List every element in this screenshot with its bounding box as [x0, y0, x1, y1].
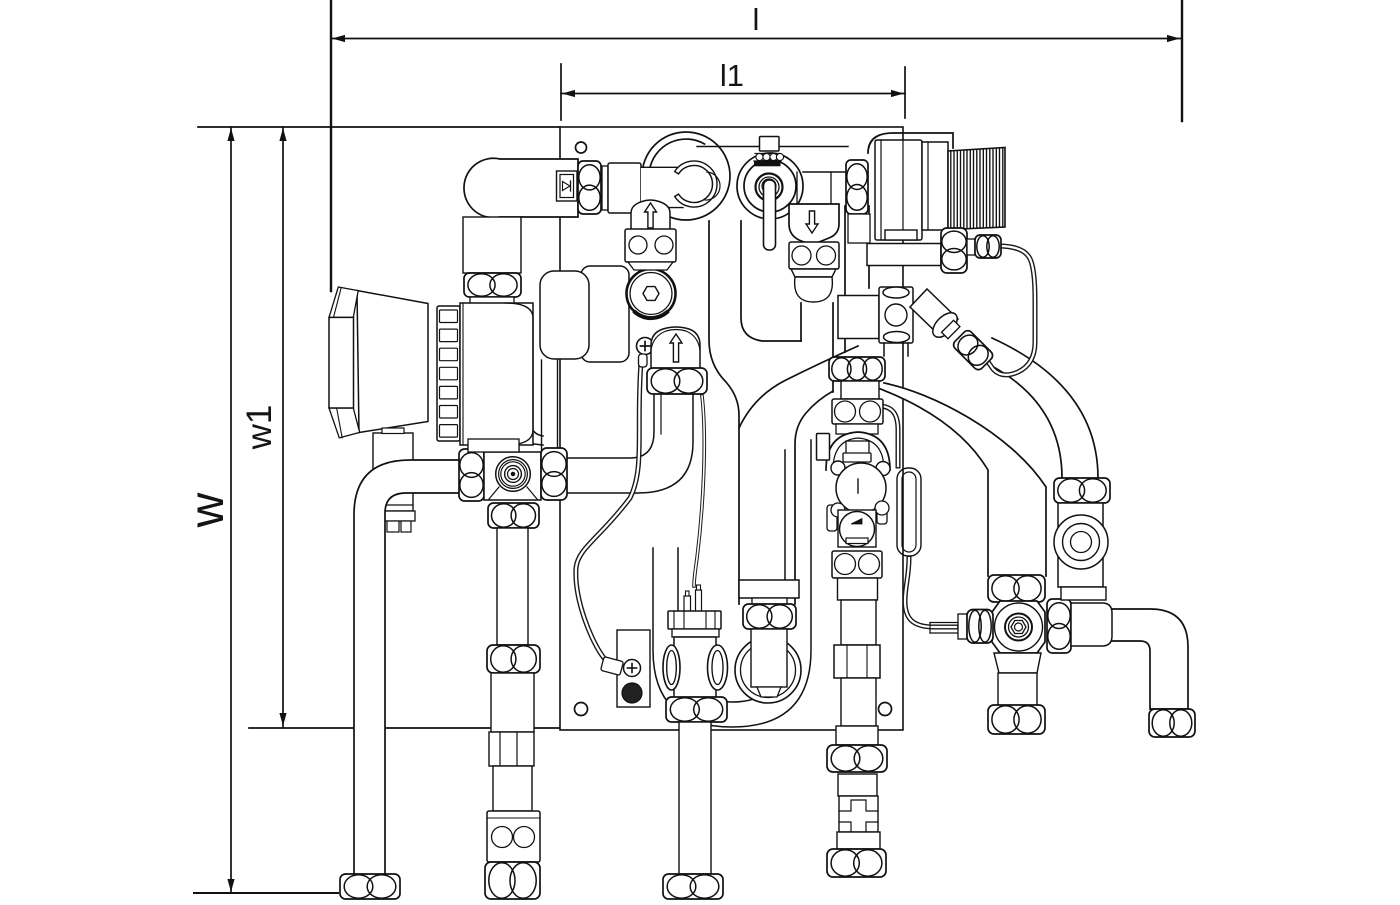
angled union nut — [951, 329, 994, 372]
pipe4 tube a — [841, 600, 876, 645]
mixing valve lugs — [827, 505, 837, 531]
pipe2 tube c — [493, 766, 532, 811]
mixing valve lower bolts — [831, 503, 845, 517]
check valve symbol box — [557, 171, 578, 201]
sight column front tube — [751, 629, 787, 687]
mixing valve bottom fitting — [832, 551, 882, 578]
dimension l1 tick left — [560, 64, 562, 120]
sensor lens left — [663, 645, 680, 690]
pipe4 collar — [836, 726, 878, 745]
mixing valve ball — [836, 463, 886, 513]
svg-text:w1: w1 — [240, 405, 279, 451]
dimension line l — [331, 38, 1181, 40]
valve5 right cylinder — [1071, 603, 1112, 646]
pipe elbow right — [1072, 609, 1188, 709]
flow fitting 1 taper — [628, 262, 673, 270]
terminal box — [617, 630, 650, 707]
mixing valve stem — [846, 441, 869, 454]
svg-text:w: w — [181, 492, 234, 528]
fitting taper — [791, 269, 836, 277]
pipe4 neck2 — [838, 774, 877, 796]
sensor flange — [668, 611, 721, 629]
sight column hex — [743, 604, 796, 629]
balancing valve rings — [737, 153, 803, 219]
capillary tube upper — [855, 406, 898, 466]
valve6 outlet collar — [1106, 600, 1118, 650]
union neck — [841, 381, 879, 399]
compression stem — [930, 622, 958, 624]
pipe2 bolt fitting — [487, 811, 540, 862]
mixing valve neck — [836, 424, 878, 434]
regulator side port hex — [941, 228, 967, 273]
collar — [602, 166, 608, 210]
balancing valve cap — [760, 137, 780, 152]
tee neck lines — [800, 303, 802, 341]
mixing valve top fitting — [832, 399, 883, 424]
compression fitting — [967, 239, 975, 255]
regulator impulse tube — [986, 246, 1035, 375]
pump clamp ring — [437, 306, 460, 441]
dimension line w1 — [282, 127, 284, 727]
hex nut right of check valve — [578, 161, 601, 214]
pipe from loop down to tee — [709, 221, 739, 604]
dimension extension line right (x=1182) — [1181, 0, 1183, 121]
sensor signal wire — [694, 396, 704, 586]
sensor body — [674, 637, 716, 700]
hex stack — [846, 160, 868, 214]
valve6 rings — [1054, 515, 1108, 569]
pump valve right hex — [541, 448, 567, 500]
pump outlet flange — [468, 445, 519, 452]
fitting bowl — [795, 277, 833, 302]
flow fitting 1 (up arrow) — [631, 200, 670, 232]
plate hole bottom-left — [575, 703, 588, 716]
valve5 right hex block — [1047, 599, 1071, 653]
pipe sweep B — [960, 338, 1098, 478]
pump inlet collar — [470, 297, 514, 304]
pipe U-loop return bend — [653, 440, 811, 727]
pump head flange circle — [627, 269, 676, 318]
separator body right — [581, 266, 629, 362]
riser hex — [647, 368, 707, 394]
regulator body — [875, 140, 922, 240]
pipe6 bottom hex — [1149, 709, 1195, 737]
mixing valve dome — [826, 432, 890, 470]
backplate — [560, 127, 903, 730]
flow fitting 2 (up arrow dome) — [651, 327, 700, 369]
pipe loop middle arc — [650, 139, 705, 170]
elbow body below check valve — [463, 217, 521, 273]
regulator knurled knob — [948, 148, 1005, 230]
pipe4 block — [837, 832, 880, 849]
valve6 lower block — [1061, 587, 1106, 600]
pipe4 union lower — [839, 796, 878, 832]
valve5 body rings — [992, 601, 1045, 653]
pipe2 tube b — [491, 673, 534, 732]
pipe3 bottom hex — [663, 874, 723, 899]
pipe2 bottom hex — [485, 862, 540, 899]
sensor pin 1 — [684, 596, 691, 613]
check valve body (muffler shape) — [464, 158, 578, 217]
vent screw tab — [639, 354, 648, 367]
pipe1 bottom hex — [340, 874, 400, 899]
pipe4 tube b — [841, 678, 876, 726]
pipe elbow left — [354, 460, 460, 876]
isolating valve body — [879, 287, 913, 343]
cable connector — [601, 657, 624, 676]
pipe loop outer ring — [642, 132, 730, 220]
pipe2 hex — [487, 645, 540, 673]
air vent fitting neck — [796, 172, 798, 204]
pump valve left hex — [459, 449, 484, 501]
balancing valve seat bar — [755, 162, 781, 166]
sensor cable — [576, 362, 641, 658]
hex nut pump inlet — [464, 273, 521, 297]
regulator base — [885, 230, 917, 240]
svg-text:l: l — [753, 2, 760, 37]
capillary tube lower — [905, 558, 956, 627]
pump motor end bevel top — [329, 287, 358, 317]
pipe4 neck — [838, 578, 878, 600]
pipe4 hex — [827, 745, 887, 772]
pipe5 bottom hex — [988, 705, 1045, 734]
plate hole top-left — [576, 142, 587, 153]
pump motor end cap — [329, 317, 354, 408]
pump motor cone — [357, 291, 428, 433]
pipe sweep A — [832, 372, 1046, 576]
union nut — [829, 357, 885, 381]
pipe4 coupler — [834, 645, 880, 678]
fitting w/ two bolts — [789, 242, 839, 269]
svg-text:l1: l1 — [720, 58, 744, 93]
valve5 lower flange — [994, 653, 1041, 673]
fitting block to loop — [608, 163, 641, 213]
pipe right riser — [844, 206, 846, 352]
pump bracket — [373, 433, 413, 511]
drain plug (dark) — [622, 683, 642, 703]
air vent fitting bracket (down arrow) — [789, 204, 839, 243]
balancing valve handle — [764, 180, 776, 250]
regulator hood — [868, 133, 953, 153]
pump valve bottom hex — [488, 503, 539, 528]
regulator mid — [922, 142, 948, 230]
vent screw — [637, 338, 654, 355]
sensor pin 2 — [696, 590, 702, 613]
sensor flange2 — [672, 629, 719, 637]
dimension extension top-left (y=127) — [198, 126, 560, 128]
terminal screw — [624, 660, 641, 677]
pipe clamp bracket — [817, 434, 830, 461]
dimension line l1 — [561, 93, 905, 95]
balancing valve bearing row — [755, 153, 780, 155]
sight column pipe — [752, 598, 787, 606]
pump-valve flange — [468, 439, 519, 452]
separator body left — [540, 271, 589, 359]
sight column tip — [757, 687, 781, 697]
dimension line w — [230, 127, 232, 893]
pipe separator to valve — [541, 360, 543, 450]
valve5 upper hex — [988, 575, 1045, 602]
pump motor end bevel bottom — [329, 408, 360, 438]
flow fitting 1 bolts — [625, 229, 676, 262]
mixing valve actuator — [838, 510, 876, 547]
dimension extension line left (x=331) — [330, 0, 332, 291]
pipe4 bottom hex — [827, 849, 886, 877]
valve6 body — [1058, 503, 1103, 587]
pump outlet hook — [516, 419, 543, 445]
mixing valve bolts — [831, 461, 845, 475]
isolating valve neck — [883, 343, 885, 356]
capillary coil — [897, 468, 921, 556]
pipe to isolating valve — [838, 296, 879, 339]
pump valve body — [484, 452, 541, 500]
valve6 upper hex — [1054, 478, 1110, 503]
balancing valve bonnet rings — [756, 174, 783, 201]
angled port cylinder — [910, 289, 958, 337]
pipe horizontal to regulator port — [867, 244, 941, 266]
sight glass flange — [735, 637, 801, 703]
pipe2 tube a — [497, 528, 528, 645]
sight column block — [739, 580, 799, 598]
dimension extension w1 bottom (y=728) — [249, 727, 560, 729]
sensor hex — [666, 697, 727, 722]
pipe loop to regulator — [697, 146, 848, 148]
pump foot step — [382, 428, 404, 434]
pump valve rings — [496, 457, 531, 492]
dimension extension bottom (y=893) — [194, 892, 338, 894]
pipe5 tube — [998, 673, 1037, 707]
valve5 left compression nut — [958, 614, 967, 639]
pipe bend valve to riser — [567, 394, 693, 493]
pipe loop C-ring — [675, 161, 717, 207]
sensor lens right — [708, 645, 728, 690]
pipe2 union block — [489, 732, 534, 766]
dimension l1 tick right — [904, 67, 906, 118]
pump body — [460, 303, 533, 445]
pipe loop entry — [641, 168, 686, 207]
plate hole bottom-right — [879, 703, 892, 716]
pipe3 tube — [679, 722, 711, 874]
